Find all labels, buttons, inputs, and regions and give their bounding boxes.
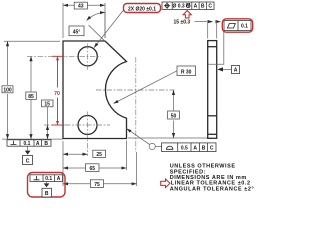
flatness symbol — [228, 24, 236, 29]
dim 25 — [63, 153, 88, 155]
svg-text:0.5: 0.5 — [181, 145, 188, 151]
svg-text:2X Ø20 ±0.1: 2X Ø20 ±0.1 — [128, 7, 156, 13]
chamfer extension line — [89, 25, 105, 41]
hole 1 horizontal centerline — [27, 55, 101, 57]
dim 70 (red) extension ticks — [52, 55, 65, 57]
position FCF (top) — [162, 2, 214, 10]
svg-text:R 30: R 30 — [181, 69, 192, 75]
balloon — [149, 143, 155, 149]
profile FCF leader — [127, 129, 150, 145]
svg-text:C: C — [26, 159, 30, 165]
dim 100 — [7, 41, 9, 85]
2X O20 red box callout — [124, 4, 161, 13]
dim 45 deg extension: vertical line — [104, 12, 106, 38]
red arrow pointing right at LINEAR — [161, 179, 170, 188]
red arrow pointing up at M — [183, 11, 191, 19]
dim 65 right extension — [125, 141, 127, 171]
perpendicularity FCF bottom — [7, 140, 51, 147]
hole 1 (top, 2X Ø20) — [78, 47, 97, 66]
hole 2 (bottom, 2X Ø20) — [78, 116, 97, 135]
side view hole lines — [208, 46, 217, 48]
svg-text:A: A — [57, 176, 61, 182]
svg-text:ANGULAR TOLERANCE ±2°: ANGULAR TOLERANCE ±2° — [170, 186, 254, 192]
datum C below — [27, 146, 29, 150]
dim 75 — [63, 183, 90, 185]
svg-text:45°: 45° — [73, 29, 81, 35]
svg-text:B: B — [201, 4, 205, 10]
dim 50 — [173, 90, 175, 111]
dim 100 extension top — [4, 40, 60, 42]
dim 65 — [63, 167, 85, 169]
hole 2 vertical centerline — [87, 112, 89, 157]
svg-text:A: A — [234, 68, 238, 74]
dim 43 extension lines — [62, 3, 64, 38]
side view outline — [208, 41, 217, 139]
svg-text:70: 70 — [54, 91, 60, 97]
datum A — [217, 67, 223, 71]
arc vertical centerline — [135, 57, 137, 152]
bottom extension line left — [2, 138, 63, 140]
hole 2 horizontal centerline — [44, 124, 110, 126]
side view extension lines up — [207, 20, 209, 39]
flatness leader — [208, 31, 224, 64]
dim 43 — [63, 4, 105, 6]
red highlighted perpendicularity FCF bottom-left — [28, 173, 66, 198]
svg-text:0.1: 0.1 — [24, 141, 31, 147]
svg-text:0.1: 0.1 — [45, 176, 52, 182]
svg-text:85: 85 — [28, 94, 34, 100]
profile of surface symbol — [167, 146, 173, 149]
dim 70 (red) — [57, 56, 59, 87]
red highlight box around flatness FCF — [222, 19, 252, 32]
flatness FCF — [224, 21, 251, 31]
svg-text:43: 43 — [78, 4, 84, 10]
svg-text:M: M — [186, 3, 190, 9]
2X O20 leader — [94, 10, 124, 48]
hole 1 vertical centerline — [87, 44, 89, 71]
svg-text:B: B — [45, 191, 49, 197]
svg-text:25: 25 — [96, 152, 102, 158]
dim 15 (hole 2 to bottom) — [42, 100, 54, 107]
dim 45 deg arc — [87, 12, 106, 20]
svg-text:15: 15 — [44, 101, 50, 107]
arc horizontal centerline — [96, 89, 175, 91]
svg-text:0.1: 0.1 — [241, 24, 248, 30]
profile FCF — [162, 143, 216, 152]
svg-text:A: A — [193, 145, 197, 151]
svg-text:100: 100 — [3, 87, 12, 93]
datum B below — [46, 182, 48, 184]
part outline front view — [63, 41, 127, 139]
svg-text:A: A — [194, 4, 198, 10]
dim 75 right extension — [136, 152, 138, 186]
svg-text:B: B — [202, 145, 206, 151]
svg-text:50: 50 — [171, 113, 177, 119]
dim 85 — [30, 56, 32, 91]
perpendicularity symbol — [11, 141, 17, 145]
svg-text:15 ±0.3: 15 ±0.3 — [174, 20, 191, 26]
M circle modifier — [186, 4, 190, 8]
svg-text:B: B — [44, 141, 48, 147]
svg-text:75: 75 — [94, 182, 100, 188]
R 30 leader — [114, 71, 178, 104]
bottom extension line right (to side view) — [128, 137, 207, 139]
svg-text:Ø 0.3: Ø 0.3 — [172, 4, 184, 10]
perpendicularity symbol — [34, 176, 40, 180]
dim 15 arrows — [208, 20, 214, 23]
svg-text:C: C — [208, 4, 212, 10]
position symbol — [165, 4, 169, 8]
svg-text:65: 65 — [90, 166, 96, 172]
svg-text:C: C — [210, 145, 214, 151]
svg-text:A: A — [36, 141, 40, 147]
left edge lower extension — [62, 141, 64, 186]
